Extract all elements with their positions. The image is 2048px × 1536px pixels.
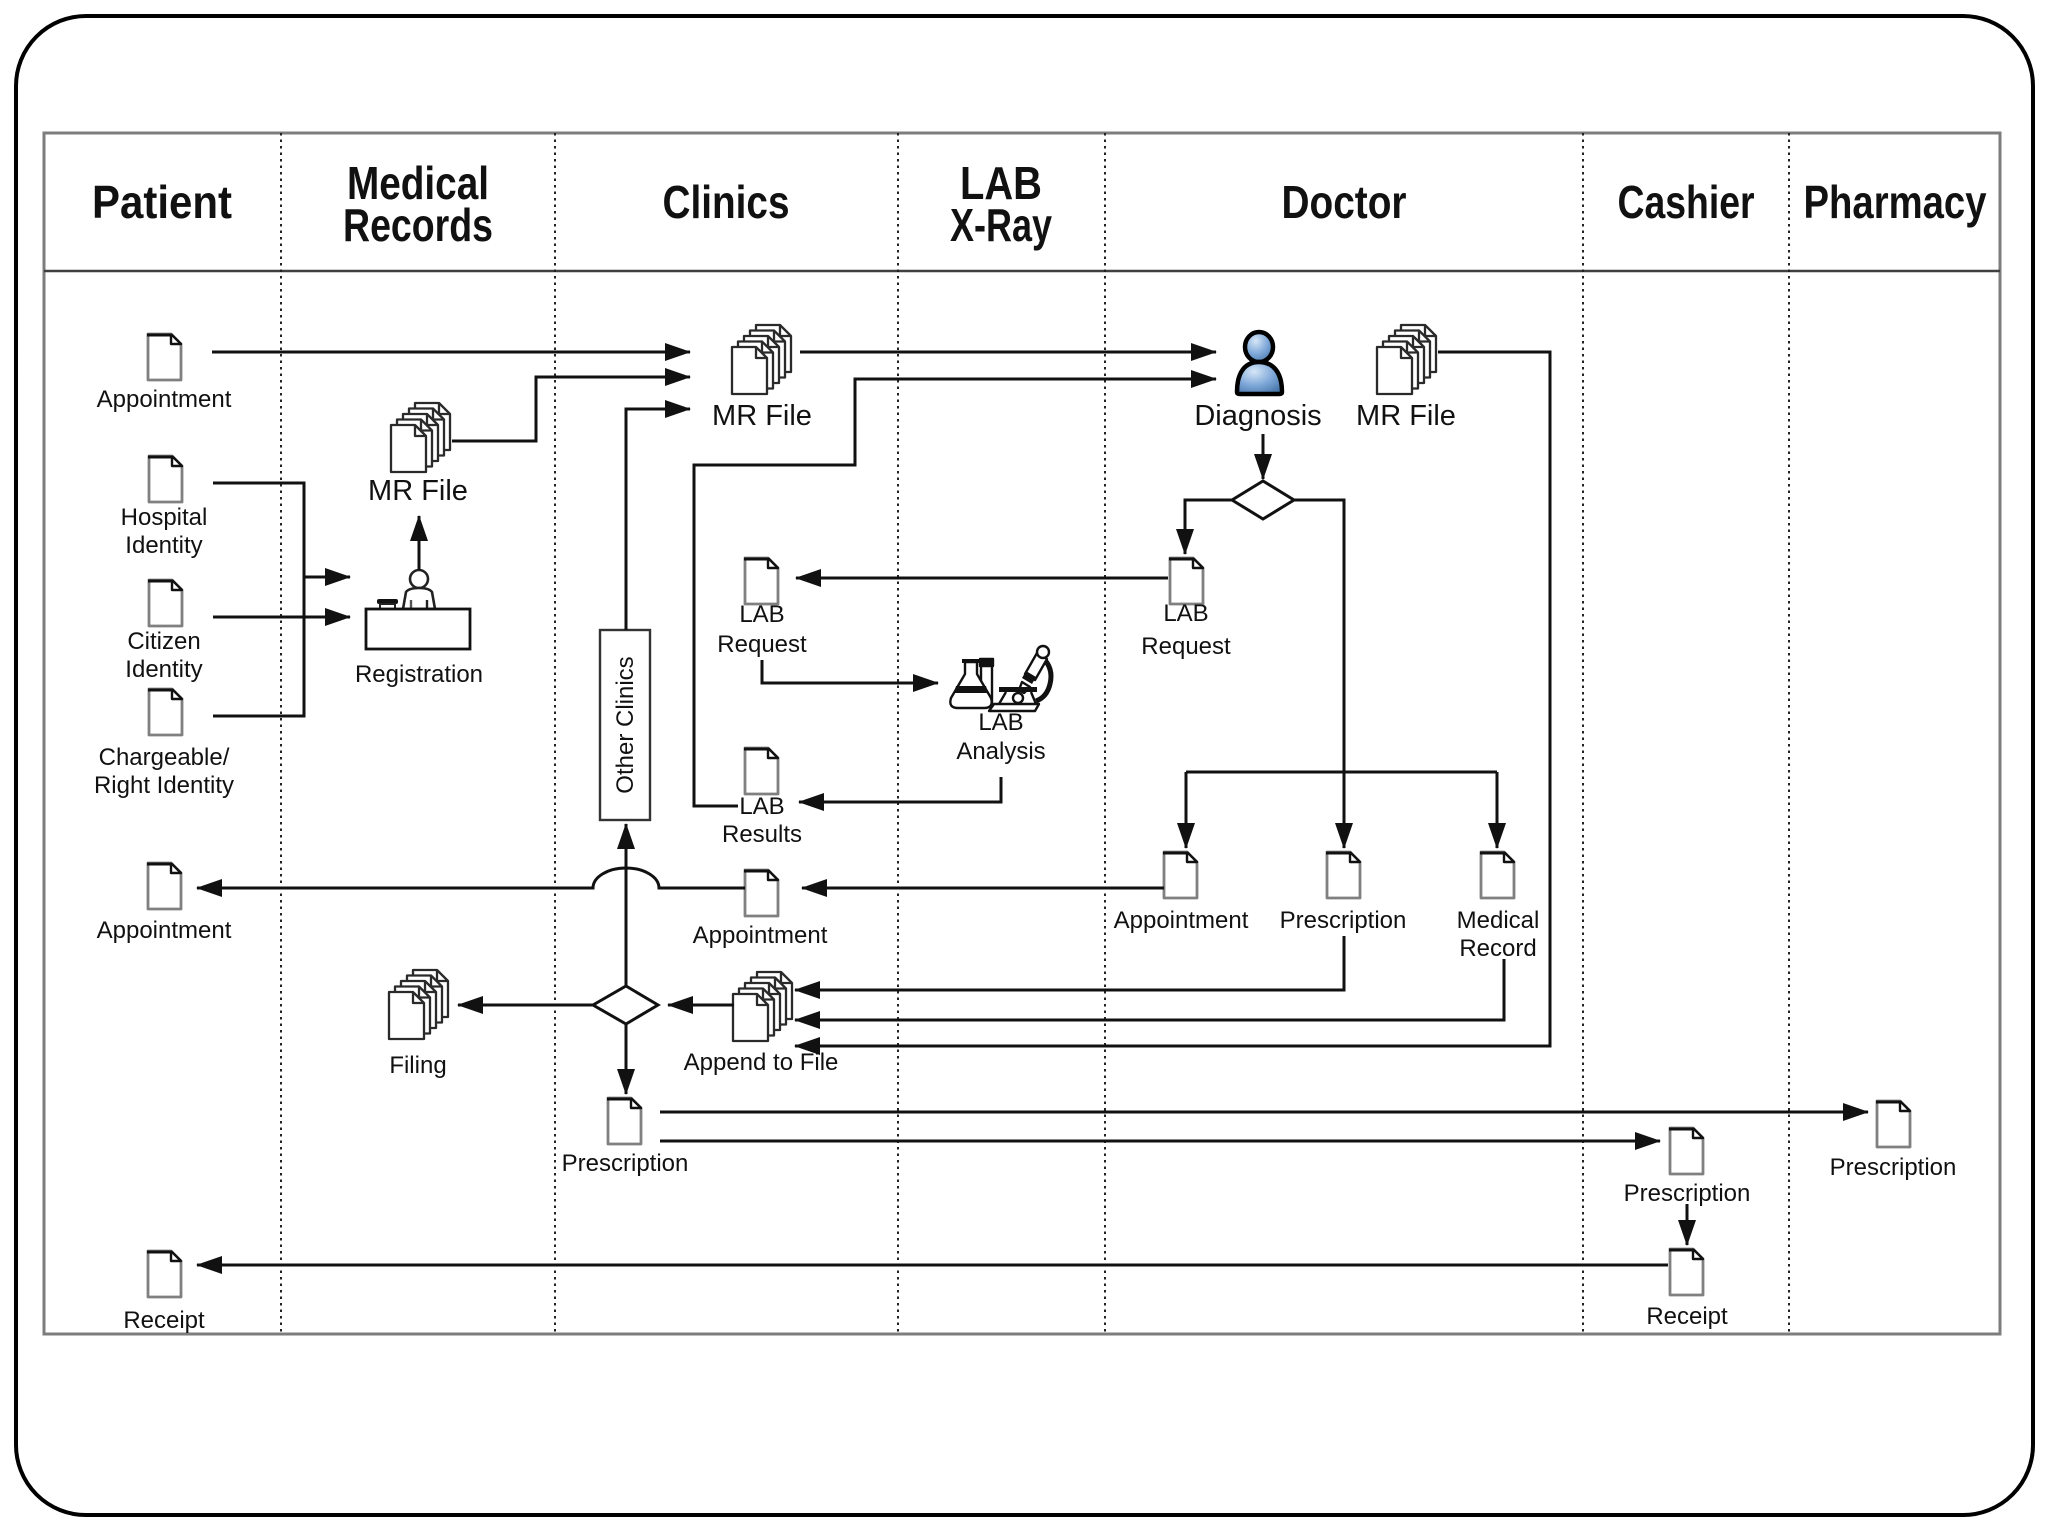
svg-text:Append to File: Append to File [684,1049,839,1076]
stack Filing [389,970,448,1039]
wire Appointment(C) to Appointment(P) with hop [197,868,745,888]
wire Prescription(C) to Prescription(Pharmacy) [660,1111,1868,1114]
svg-text:MR File: MR File [712,400,812,432]
wire Prescription(Cashier) to Receipt(Cashier) [1686,1204,1689,1245]
svg-text:Cashier: Cashier [1618,176,1755,228]
doc LAB Request (Doctor) [1169,558,1203,604]
lane divider 4 [1104,133,1106,1334]
wire Prescription(C) to Prescription(Cashier) [660,1140,1660,1143]
wire MR File(C) to Diagnosis [800,351,1216,354]
svg-text:Appointment: Appointment [1114,907,1249,934]
test tube [981,660,992,707]
box Other Clinics [600,630,650,820]
wire LAB Analysis to LAB Results [799,777,1001,802]
stack Append to File [733,972,792,1041]
svg-text:Receipt: Receipt [1646,1303,1728,1330]
svg-text:LAB: LAB [739,793,784,820]
svg-text:LAB: LAB [739,601,784,628]
wire diamond(C) to Prescription(C) [625,1024,628,1094]
lane divider 3 [897,133,899,1334]
wire Registration to MR File(MedRec) [418,516,421,570]
wire diamond(D) to LAB Request(D) [1185,500,1232,554]
stack MR File (Doctor) [1377,325,1436,394]
svg-text:Request: Request [1141,633,1231,660]
icon LAB Analysis [950,646,1051,711]
svg-text:LAB: LAB [1163,600,1208,627]
svg-text:Request: Request [717,631,807,658]
doc Prescription (Clinics) [607,1098,641,1144]
svg-text:Hospital: Hospital [121,504,208,531]
svg-text:Appointment: Appointment [97,917,232,944]
svg-text:Prescription: Prescription [1830,1154,1957,1181]
wire MR File(D) to Append to File [795,352,1550,1046]
registration desk person [366,570,470,649]
doc Receipt (Cashier) [1669,1249,1703,1295]
doc Receipt (Patient) [147,1251,181,1297]
wire T-branch horizontal [1186,771,1497,774]
doc Appointment (Patient lower) [147,863,181,909]
doc Prescription (Doctor) [1326,852,1360,898]
wire Medical Record(D) to Append to File [795,959,1504,1020]
svg-text:Right Identity: Right Identity [94,772,234,799]
svg-text:Diagnosis: Diagnosis [1194,400,1321,432]
doc Appointment (Patient top) [147,334,181,380]
svg-text:Registration: Registration [355,661,483,688]
wire diamond(C) to Filing [458,1004,593,1007]
svg-text:Doctor: Doctor [1282,176,1407,228]
svg-text:LAB: LAB [978,709,1023,736]
lane divider 1 [280,133,282,1334]
svg-text:Prescription: Prescription [562,1150,689,1177]
wire Receipt(Cashier) to Receipt(Patient) [197,1264,1668,1267]
wire Append to File to diamond(C) [668,1004,734,1007]
wire Hospital Identity elbow [213,483,304,716]
stack MR File (Medical Records) [391,403,450,472]
svg-text:Results: Results [722,821,802,848]
doc Prescription (Cashier) [1669,1128,1703,1174]
microscope arm [1036,657,1051,701]
wire identity vertical to Registration [304,576,350,579]
diamond (Doctor) [1232,481,1294,519]
svg-text:Clinics: Clinics [663,176,790,228]
wire Appointment(P) to MR File(C) [212,351,690,354]
svg-text:Other Clinics: Other Clinics [612,656,639,793]
svg-text:MR File: MR File [368,475,468,507]
svg-text:Prescription: Prescription [1280,907,1407,934]
wire Citizen Identity to Registration [213,616,350,619]
svg-text:Identity: Identity [125,656,202,683]
svg-text:Prescription: Prescription [1624,1180,1751,1207]
wire MR File(MedRec) to MR File(C) [452,377,690,441]
svg-text:Identity: Identity [125,532,202,559]
header underline [44,270,2000,273]
diamond (Clinics) [593,986,658,1024]
svg-text:Receipt: Receipt [123,1307,205,1334]
doc Medical Record (Doctor) [1480,852,1514,898]
doc LAB Results (Clinics) [744,748,778,794]
swimlane table outline [44,133,2000,1334]
doc Appointment (Doctor) [1163,852,1197,898]
doc Hospital Identity [148,456,182,502]
wire diamond(D) right branch down [1294,500,1344,848]
doc Appointment (Clinics) [744,870,778,916]
person Diagnosis [1237,332,1282,394]
svg-text:Records: Records [343,199,493,251]
svg-text:MR File: MR File [1356,400,1456,432]
svg-text:Appointment: Appointment [693,922,828,949]
stack MR File (Clinics) [732,325,791,394]
microscope stage [999,687,1037,692]
svg-text:Appointment: Appointment [97,386,232,413]
lane divider 5 [1582,133,1584,1334]
lane divider 6 [1788,133,1790,1334]
wire LAB Request(C) to LAB Analysis [762,660,938,683]
svg-text:Patient: Patient [92,176,232,228]
svg-text:Citizen: Citizen [127,628,200,655]
doc LAB Request (Clinics) [744,558,778,604]
svg-text:Chargeable/: Chargeable/ [99,744,230,771]
wire LAB Results to Diagnosis [694,379,1216,806]
svg-text:Record: Record [1459,935,1536,962]
flask [950,662,991,708]
lane divider 2 [554,133,556,1334]
svg-text:Medical: Medical [1457,907,1540,934]
microscope base [989,704,1039,711]
wire Diagnosis to diamond(D) [1262,434,1265,479]
wire Other Clinics to MR File(C) [626,409,690,630]
svg-text:Filing: Filing [389,1052,446,1079]
wire diamond(C) to Other Clinics [625,824,628,986]
svg-text:Analysis: Analysis [956,738,1045,765]
wire LAB Request(D) to LAB Request(C) [796,577,1168,580]
microscope eyepiece [1025,653,1047,680]
svg-text:Pharmacy: Pharmacy [1804,176,1987,228]
wire branch to Medical Record(D) [1496,772,1499,848]
wire branch to Appointment(D) [1185,772,1188,848]
svg-text:X-Ray: X-Ray [950,199,1052,251]
doc Prescription (Pharmacy) [1876,1101,1910,1147]
wire Appointment(D) to Appointment(C) [802,887,1164,890]
doc Citizen Identity [148,580,182,626]
wire Prescription(D) to Append to File [795,936,1344,990]
doc Chargeable/Right Identity [148,689,182,735]
